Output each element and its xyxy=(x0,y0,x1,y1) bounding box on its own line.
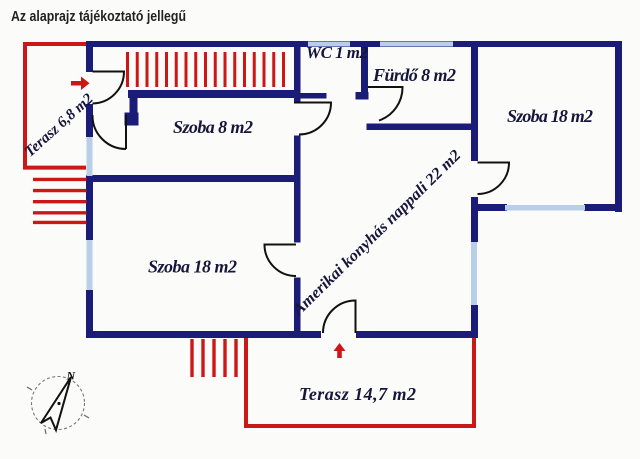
svg-text:Szoba 18 m2: Szoba 18 m2 xyxy=(507,106,593,126)
arrow right (terrace door) xyxy=(71,77,90,91)
compass ticks xyxy=(27,387,89,434)
door szoba18tr xyxy=(478,163,510,195)
door szoba18bl xyxy=(265,245,297,277)
compass circle xyxy=(32,377,85,430)
wall top xyxy=(86,41,622,47)
svg-text:Szoba 18 m2: Szoba 18 m2 xyxy=(148,257,237,277)
wall wc bottom xyxy=(294,93,327,99)
wall szoba18tr bottom right part xyxy=(584,204,622,211)
arrow up (bottom terrace door) xyxy=(334,343,346,358)
wall radiator inner xyxy=(128,90,301,98)
terrace bottom outline xyxy=(246,338,474,426)
wall right xyxy=(615,41,622,212)
wall hall seg1 xyxy=(294,44,301,102)
svg-text:Terasz 14,7 m2: Terasz 14,7 m2 xyxy=(299,384,416,404)
window left wall upper xyxy=(87,137,93,176)
window top wc xyxy=(308,42,350,47)
wall x474 seg3 xyxy=(471,305,478,338)
svg-text:Fürdő 8 m2: Fürdő 8 m2 xyxy=(372,65,456,85)
window szoba18tr bottom xyxy=(505,205,585,211)
door furdo xyxy=(368,87,403,121)
jamb wc/furdo xyxy=(356,92,369,100)
wall bottom left part xyxy=(86,331,321,338)
stairs bottom xyxy=(192,339,236,377)
wall furdo bottom xyxy=(367,124,479,131)
terrace top-left outline xyxy=(25,44,86,168)
window nappali right xyxy=(471,242,477,305)
svg-text:Az alaprajz tájékoztató jelleg: Az alaprajz tájékoztató jellegű xyxy=(11,9,186,25)
wall hall seg2 xyxy=(294,136,301,243)
wall left seg1 xyxy=(86,41,93,72)
wall x474 seg1 xyxy=(471,44,478,161)
window top furdo xyxy=(380,42,453,47)
wall left seg2 xyxy=(86,104,93,137)
svg-text:N: N xyxy=(66,369,77,383)
wall left seg4 xyxy=(86,290,93,338)
stairs left xyxy=(33,179,87,222)
wall left seg3 xyxy=(86,176,93,240)
compass needle xyxy=(41,377,71,430)
wall hall seg3 xyxy=(294,278,301,335)
door szoba8 xyxy=(92,115,126,150)
window left wall lower xyxy=(87,240,93,290)
svg-text:Szoba 8 m2: Szoba 8 m2 xyxy=(173,117,253,137)
jamb szoba8 xyxy=(125,113,139,126)
wall szoba18tr bottom left part xyxy=(471,204,507,211)
wall x474 seg2 xyxy=(471,197,478,242)
compass center dot xyxy=(57,402,60,405)
door terrace-hall xyxy=(93,72,125,104)
wall divider szoba8/szoba18 xyxy=(86,175,301,182)
door bottom terrace xyxy=(323,301,356,334)
svg-text:WC 1 m2: WC 1 m2 xyxy=(306,43,369,62)
wall bottom right part xyxy=(356,331,478,338)
door wc xyxy=(294,103,331,135)
wall wc/furdo xyxy=(361,44,368,99)
wall szoba8 left piece xyxy=(130,95,138,118)
radiator szoba8 xyxy=(128,52,284,87)
